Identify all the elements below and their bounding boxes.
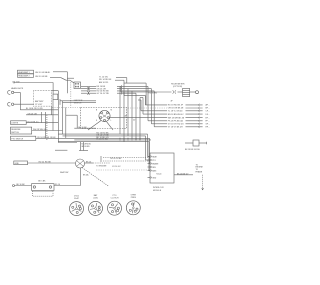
- key switch wires: [88, 121, 101, 130]
- battery box (dotted): [34, 91, 52, 107]
- wire with terminal: [13, 185, 15, 187]
- svg-text:L: L: [111, 120, 112, 122]
- headlight connector P2: [8, 102, 11, 106]
- svg-text:RD 20 RD: RD 20 RD: [149, 93, 158, 95]
- wire row2: [50, 77, 61, 79]
- tick marks: [120, 85, 123, 88]
- svg-text:GY 18 GY RD 4G: GY 18 GY RD 4G: [168, 124, 184, 126]
- svg-text:PTO: PTO: [152, 160, 156, 162]
- svg-text:BK 18 BK DIODE: BK 18 BK DIODE: [185, 149, 200, 151]
- svg-text:PTO SWITCH: PTO SWITCH: [11, 138, 23, 140]
- seat switch connector: [76, 159, 85, 168]
- dotted line: [52, 107, 81, 109]
- svg-text:LIGHTS: LIGHTS: [11, 123, 19, 125]
- bundle wire: [36, 137, 150, 139]
- svg-text:BK 5 BK: BK 5 BK: [38, 180, 46, 182]
- wire: [74, 127, 96, 129]
- svg-text:HEADLAMP 2: HEADLAMP 2: [18, 75, 29, 78]
- connector block S1: [74, 82, 81, 89]
- key switch SW1: [99, 110, 110, 121]
- dotted wire: [96, 169, 150, 171]
- wire row: [127, 107, 168, 109]
- lights box: [11, 121, 27, 125]
- dashed box: [33, 191, 54, 196]
- svg-text:WH 18 WH BK 4B: WH 18 WH BK 4B: [168, 117, 185, 119]
- svg-text:HEADLAMP 1: HEADLAMP 1: [18, 71, 29, 74]
- svg-text:REVERSE: REVERSE: [11, 129, 21, 131]
- wire: [14, 82, 53, 84]
- vertical wires: [51, 106, 53, 115]
- svg-text:GN 20 GN 4B: GN 20 GN 4B: [35, 76, 48, 78]
- interlock module box: [150, 153, 174, 183]
- wire row: [145, 104, 167, 106]
- fuse holder box: [32, 184, 55, 191]
- svg-text:OR 16 OR BK: OR 16 OR BK: [110, 158, 122, 160]
- svg-text:BN 18 BN WH 4C: BN 18 BN WH 4C: [168, 114, 184, 116]
- wire: [116, 77, 127, 79]
- pto switch box: [11, 136, 36, 140]
- round connector J1: [70, 202, 84, 216]
- svg-text:725-04: 725-04: [156, 173, 161, 175]
- svg-text:12 VOLT: 12 VOLT: [35, 104, 43, 106]
- svg-text:OR 18 OR BK 4E: OR 18 OR BK 4E: [168, 108, 184, 110]
- wire row: [143, 113, 167, 115]
- svg-text:HEADLIGHTS: HEADLIGHTS: [11, 87, 24, 90]
- bundle wire: [74, 139, 151, 141]
- svg-text:BK 16: BK 16: [86, 161, 91, 163]
- wire: [81, 88, 96, 90]
- svg-text:SEAT SW: SEAT SW: [60, 171, 69, 174]
- wire to hour meter: [120, 86, 122, 92]
- wire: [14, 103, 34, 105]
- svg-text:CLUTCH: CLUTCH: [111, 197, 119, 199]
- wire: [54, 185, 81, 187]
- bundle-to-module wires: [147, 134, 149, 156]
- cross wires: [140, 97, 143, 99]
- reverse switch box: [11, 127, 32, 134]
- wire: [81, 85, 96, 87]
- wire row: [148, 120, 167, 122]
- svg-text:BATTERY: BATTERY: [35, 100, 44, 103]
- wire row1: [53, 71, 67, 73]
- headlight connector P1: [8, 90, 11, 94]
- connector marks: [173, 90, 174, 93]
- svg-text:(OPTION): (OPTION): [173, 86, 182, 88]
- wire: [28, 162, 76, 164]
- connector marks: [87, 87, 89, 90]
- junction dots: [119, 137, 122, 140]
- svg-text:MODULE: MODULE: [153, 190, 162, 192]
- wire row: [151, 123, 167, 125]
- headlamp box H1: [18, 70, 34, 73]
- svg-text:(12V): (12V): [93, 198, 98, 200]
- svg-text:YL 14 GN: YL 14 GN: [99, 76, 108, 78]
- diode D1: [185, 142, 193, 144]
- junction wires: [59, 99, 61, 105]
- dashed vertical: [46, 115, 48, 140]
- svg-text:GROUND: GROUND: [81, 146, 90, 148]
- ground box: [14, 161, 28, 165]
- wire row: [141, 110, 167, 112]
- wire row: [110, 117, 167, 119]
- connector bracket: [100, 156, 102, 162]
- module right wire: [174, 174, 193, 176]
- svg-text:GN 20 GN 4A BL: GN 20 GN 4A BL: [35, 71, 51, 74]
- svg-text:VT 18 VT BK 4H: VT 18 VT BK 4H: [168, 127, 183, 129]
- switch feed wires: [65, 108, 67, 116]
- svg-text:BK 16 BK GY: BK 16 BK GY: [177, 173, 189, 175]
- svg-text:BK 16 BK: BK 16 BK: [16, 184, 25, 186]
- corner verticals: [144, 95, 146, 105]
- svg-text:GND: GND: [15, 163, 20, 165]
- key switch enclosure (dashed): [81, 108, 127, 129]
- small relay box: [53, 94, 58, 100]
- wire: [115, 79, 124, 81]
- svg-text:RD 14 RD BK: RD 14 RD BK: [99, 79, 112, 81]
- svg-text:GND: GND: [152, 177, 157, 179]
- round connector J2: [89, 201, 103, 215]
- svg-text:TO ENGINE: TO ENGINE: [96, 166, 107, 168]
- svg-text:RD 18 RD BK 4F: RD 18 RD BK 4F: [168, 105, 184, 107]
- svg-text:RD 16: RD 16: [55, 184, 60, 186]
- svg-text:PK 18 PK BK 4A: PK 18 PK BK 4A: [168, 120, 184, 123]
- svg-text:YL 16 YL RD: YL 16 YL RD: [96, 139, 108, 141]
- wire: [81, 90, 96, 92]
- svg-text:INTERLOCK: INTERLOCK: [153, 187, 165, 189]
- round connector J3: [108, 201, 122, 215]
- round connector J4: [126, 201, 140, 215]
- hour meter M1: [183, 89, 190, 97]
- wire: [14, 91, 20, 93]
- bundle wire: [63, 135, 146, 137]
- svg-text:GY 16 GY: GY 16 GY: [112, 166, 121, 168]
- svg-text:FRAME: FRAME: [196, 170, 203, 173]
- wire: [81, 92, 96, 94]
- svg-text:SWITCH: SWITCH: [11, 132, 19, 134]
- svg-text:BK 4A: BK 4A: [83, 174, 89, 177]
- dotted vertical: [70, 82, 72, 108]
- svg-text:BRAKE: BRAKE: [152, 162, 159, 165]
- headlamp box H2: [18, 74, 34, 77]
- svg-text:AM 16 RD: AM 16 RD: [99, 81, 109, 84]
- svg-text:MAG: MAG: [152, 169, 157, 172]
- svg-text:YL 18 YL GN 4D: YL 18 YL GN 4D: [168, 111, 183, 113]
- wire: [67, 77, 74, 79]
- svg-text:BK 16 BK: BK 16 BK: [78, 127, 87, 129]
- wire: [124, 82, 146, 84]
- svg-text:PRES: PRES: [131, 197, 137, 199]
- bundle wire: [58, 133, 147, 135]
- svg-text:GY 16 GY RD: GY 16 GY RD: [97, 93, 110, 95]
- wire row: [154, 126, 167, 128]
- vertical bus wires: [119, 86, 121, 134]
